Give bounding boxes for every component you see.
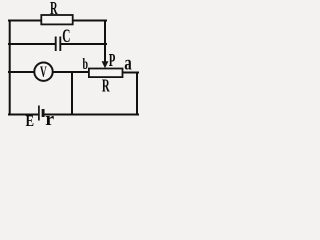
svg-text:V: V [40,63,47,81]
battery E long plate [38,106,40,121]
slider arrow P shaft [104,60,106,63]
wire: capacitor row right [61,43,106,45]
svg-text:R: R [102,77,110,96]
wire: bottom left segment [9,114,38,116]
wire: bottom right segment [44,114,138,116]
wire: capacitor row [9,43,55,45]
capacitor C right plate [59,37,61,52]
wire: right vertical of R-C section down to slider [104,21,106,62]
wire: left vertical [9,21,11,115]
wire: middle vertical junction to bottom [71,72,73,115]
svg-text:P: P [109,51,116,70]
svg-text:R: R [50,0,58,19]
capacitor C left plate [55,37,57,52]
wire: rheostat right lead [122,72,138,74]
voltmeter V [34,62,52,80]
wire: voltmeter row [9,71,89,73]
svg-text:E: E [26,113,35,131]
svg-text:r: r [45,110,54,130]
svg-text:C: C [62,26,70,47]
background [0,0,143,132]
wire: right vertical [136,73,138,115]
battery E short thick plate [42,109,45,117]
slider arrow head [102,61,109,68]
svg-text:a: a [124,51,132,74]
resistor R1 (top) [41,15,72,24]
wire: top horizontal [9,20,106,22]
rheostat R (box) [89,69,123,78]
svg-text:b: b [82,55,88,73]
